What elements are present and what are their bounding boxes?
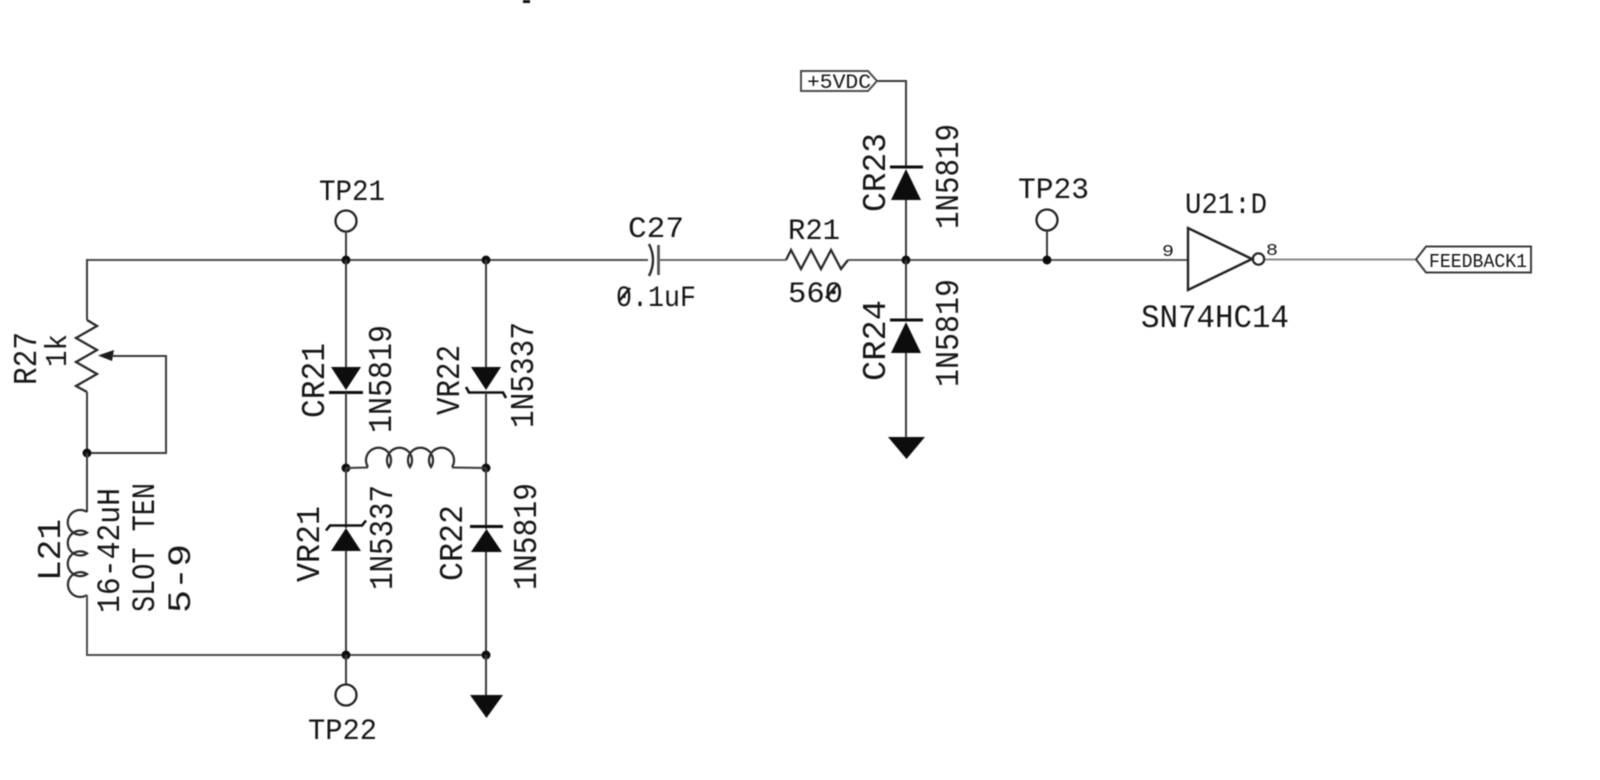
svg-text:5-9: 5-9 <box>163 544 200 613</box>
svg-text:L21: L21 <box>33 519 70 581</box>
slash in zero of 0.1uF <box>619 288 630 301</box>
node bottom left <box>342 651 351 660</box>
wire mid node to VR21 <box>345 468 347 528</box>
svg-text:VR21: VR21 <box>292 506 329 582</box>
power flag +5VDC <box>801 71 877 91</box>
wire node to CR24 <box>905 260 907 320</box>
node junction R21 CR23 <box>902 256 911 265</box>
node mid right <box>482 464 491 473</box>
svg-text:CR22: CR22 <box>435 505 472 581</box>
wire mid node to CR22 <box>485 468 487 529</box>
node junction TP21 <box>342 256 351 265</box>
inverter bubble <box>1253 253 1264 264</box>
stray mark top edge <box>523 0 530 3</box>
wire resistor to junction <box>86 392 88 453</box>
testpoint TP22 circle <box>336 685 357 706</box>
testpoint TP21 circle <box>336 211 357 232</box>
svg-text:SLOT TEN: SLOT TEN <box>127 483 164 612</box>
diode CR24 <box>890 319 923 322</box>
diode CR23 <box>890 166 923 169</box>
svg-text:+5VDC: +5VDC <box>807 72 871 95</box>
svg-text:R21: R21 <box>788 215 840 249</box>
wire TP22 stub <box>345 655 347 685</box>
node junction R27 bottom <box>83 449 92 458</box>
zener VR22 <box>471 367 501 390</box>
wire right column upper <box>485 260 487 368</box>
svg-text:8: 8 <box>1266 242 1278 261</box>
svg-text:16-42uH: 16-42uH <box>92 488 129 613</box>
svg-text:0.1uF: 0.1uF <box>616 282 696 316</box>
svg-text:CR23: CR23 <box>858 133 895 212</box>
op-amp U21 inverter triangle <box>1188 228 1252 290</box>
wire CR24 to ground <box>905 353 907 438</box>
wire left column upper <box>345 260 347 368</box>
capacitor C27 <box>649 244 653 276</box>
svg-text:CR24: CR24 <box>858 300 895 381</box>
ground under CR24 <box>888 437 925 459</box>
wire junction to coil <box>86 453 88 512</box>
svg-text:TP21: TP21 <box>319 176 385 210</box>
wire TP23 stub <box>1046 231 1048 260</box>
wire wiper loop <box>89 356 166 453</box>
inductor mid horizontal <box>346 467 368 470</box>
wire TP21 stub <box>345 231 347 260</box>
wire +5VDC to CR23 <box>877 81 906 167</box>
wire CR21 to mid node <box>345 393 347 468</box>
resistor R27 <box>76 320 97 392</box>
svg-text:9: 9 <box>1162 243 1174 262</box>
wiper arrow of R27 <box>98 350 114 361</box>
svg-text:1N5819: 1N5819 <box>509 483 546 590</box>
net flag FEEDBACK1 <box>1416 247 1531 273</box>
wire left branch top <box>86 259 88 320</box>
wire CR22 to bottom <box>485 552 487 655</box>
wire to ground right <box>485 655 487 696</box>
svg-text:TP22: TP22 <box>308 715 377 749</box>
wire CR23 to node <box>905 200 907 260</box>
wire inverter to flag <box>1265 259 1416 261</box>
testpoint TP23 circle <box>1037 210 1058 231</box>
svg-text:1N5337: 1N5337 <box>506 322 543 428</box>
svg-text:C27: C27 <box>628 213 684 247</box>
node mid left <box>342 464 351 473</box>
svg-text:1N5819: 1N5819 <box>364 325 401 433</box>
svg-text:FEEDBACK1: FEEDBACK1 <box>1429 251 1527 273</box>
svg-text:U21:D: U21:D <box>1185 189 1267 223</box>
node bottom right <box>482 651 491 660</box>
wire main horizontal left <box>87 259 648 261</box>
wire resistor to inverter <box>848 259 1188 261</box>
svg-text:1k: 1k <box>41 334 76 367</box>
node junction TP23 <box>1043 256 1052 265</box>
svg-text:CR21: CR21 <box>297 343 334 418</box>
svg-text:TP23: TP23 <box>1018 174 1089 208</box>
resistor R21 <box>786 250 848 269</box>
svg-text:1N5337: 1N5337 <box>365 485 402 590</box>
wire VR22 to mid node <box>485 393 487 468</box>
slash in zero of 560 <box>826 285 837 298</box>
svg-text:1N5819: 1N5819 <box>931 279 968 387</box>
svg-text:560: 560 <box>788 278 843 312</box>
wire cap to resistor <box>660 259 786 261</box>
svg-text:1N5819: 1N5819 <box>931 124 968 229</box>
svg-text:SN74HC14: SN74HC14 <box>1141 300 1289 337</box>
wire VR21 to bottom <box>345 551 347 655</box>
wire coil to bottom <box>87 595 487 655</box>
inductor L21 <box>68 510 87 597</box>
ground under CR22 <box>470 695 503 718</box>
svg-text:VR22: VR22 <box>432 345 469 415</box>
zener VR21 <box>326 521 366 531</box>
diode CR21 <box>331 367 361 390</box>
node junction top right branch <box>482 256 491 265</box>
diode CR22 <box>470 525 503 528</box>
